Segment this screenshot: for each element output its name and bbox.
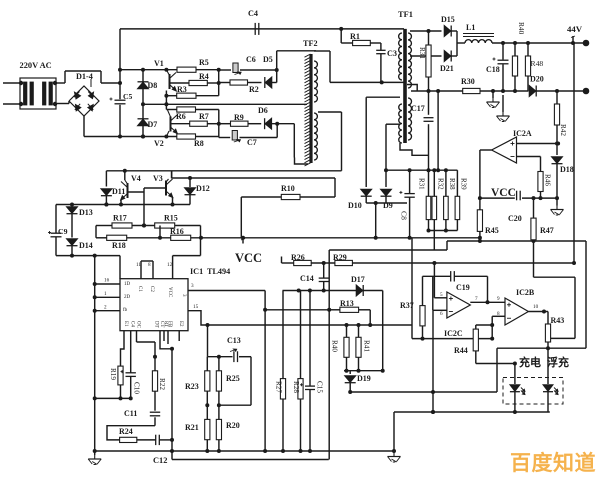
wire AC input lead top <box>3 82 20 84</box>
capacitor C18 <box>493 43 509 91</box>
wire IC2A plus in <box>517 142 561 146</box>
diode D9 <box>381 189 392 196</box>
label R39 rotated <box>460 178 468 190</box>
resistor R40 <box>344 325 349 357</box>
label C11 <box>124 409 137 418</box>
svg-text:R46: R46 <box>544 174 552 186</box>
svg-text:V3: V3 <box>153 174 163 183</box>
capacitor C14 <box>319 263 329 293</box>
svg-text:C2: C2 <box>149 286 154 292</box>
wire pin to R19 <box>121 331 125 366</box>
wire base rail y69.7 <box>120 68 221 72</box>
bridge rectifier D1-4 <box>69 79 99 116</box>
resistor R39 <box>455 170 460 219</box>
resistor R1 <box>353 40 371 45</box>
wire R17R15 run <box>96 224 201 238</box>
label C4 <box>248 9 258 18</box>
wire C19 loop <box>423 276 490 304</box>
wire D19 bottom <box>348 383 352 394</box>
wire y325 run <box>206 323 413 327</box>
svg-text:R8: R8 <box>194 139 204 148</box>
IC1 pin feedback wire <box>188 311 208 325</box>
wire rail y178 <box>172 172 335 181</box>
wire D20 to terminal <box>536 90 586 92</box>
wire VCC rail y237.8 <box>96 236 482 240</box>
svg-text:C1: C1 <box>137 286 142 292</box>
transformer TF1 primary upper <box>399 33 402 80</box>
wire V4 base <box>128 191 145 193</box>
svg-text:R6: R6 <box>176 112 186 121</box>
capacitor C19 <box>451 271 455 281</box>
resistor R24 <box>120 437 137 442</box>
svg-text:C13: C13 <box>227 336 241 345</box>
resistor R16 <box>171 235 191 240</box>
svg-text:C12: C12 <box>153 456 167 465</box>
label C5 <box>123 92 132 101</box>
IC1 pin3 wire <box>188 291 331 452</box>
label R31 rotated <box>418 47 426 59</box>
svg-text:D21: D21 <box>440 64 454 73</box>
wire V2 collector <box>168 110 171 117</box>
wire D5 up to TF2 <box>272 51 316 83</box>
resistor R45 <box>477 198 482 241</box>
wire R3 run <box>166 95 218 97</box>
wire float feed <box>551 277 575 338</box>
label R43 <box>551 316 565 325</box>
resistor R5 <box>177 67 196 72</box>
svg-text:R48: R48 <box>531 59 544 68</box>
wire V1 base to R4 <box>170 82 190 84</box>
svg-text:E1: E1 <box>123 321 128 327</box>
label R38 rotated <box>448 178 456 190</box>
transistor V3 <box>166 172 173 205</box>
label R30 <box>461 77 475 86</box>
svg-text:12: 12 <box>167 262 173 268</box>
wire feed y255.6 <box>56 254 120 258</box>
resistor R20 <box>216 405 221 453</box>
svg-text:2D: 2D <box>124 295 131 300</box>
label R25 <box>226 374 240 383</box>
capacitor C20 <box>517 191 521 201</box>
op-amp IC2C <box>447 292 470 318</box>
label D1-4 <box>76 72 93 81</box>
transformer TF2 core <box>309 54 312 163</box>
svg-text:TL494: TL494 <box>207 267 230 276</box>
svg-text:R19: R19 <box>109 368 117 380</box>
label R23 <box>185 382 199 391</box>
wire TF2 bottom box <box>295 158 309 165</box>
resistor R19 <box>118 366 123 400</box>
label C18 <box>486 65 500 74</box>
wire pin drop x172 <box>160 331 174 453</box>
svg-text:C17: C17 <box>411 104 425 113</box>
svg-text:百度知道: 百度知道 <box>510 451 596 475</box>
svg-text:VCC: VCC <box>491 187 516 199</box>
label C17 <box>411 104 425 113</box>
resistor R42 <box>554 91 559 140</box>
wire top rail y29 <box>120 27 404 31</box>
wire R32 drop <box>329 220 447 250</box>
wire R1 drop <box>341 29 352 43</box>
svg-text:DT: DT <box>154 321 159 328</box>
label IC2B <box>516 288 535 297</box>
label V4 <box>131 174 141 183</box>
wire bridge- down <box>83 116 85 137</box>
op-amp IC2A <box>492 137 517 163</box>
resistor R21 <box>205 405 210 453</box>
wire R7 right <box>207 122 221 126</box>
svg-text:R7: R7 <box>199 112 209 121</box>
svg-text:C14: C14 <box>300 274 314 283</box>
diode D12 <box>185 188 196 195</box>
wire T to bridge top <box>56 71 101 83</box>
wire IC2C minus in <box>433 309 447 311</box>
svg-text:R37: R37 <box>400 301 414 310</box>
svg-text:D15: D15 <box>441 15 455 24</box>
svg-text:7: 7 <box>475 296 478 302</box>
wire D12 column <box>189 178 191 187</box>
LED charge <box>510 364 525 415</box>
diode D19 <box>345 376 356 383</box>
label R17 <box>113 214 127 223</box>
wire D19 stub <box>349 371 351 374</box>
capacitor C11 <box>150 391 160 426</box>
wire R2 run y82.5 <box>219 82 262 84</box>
label 44V <box>567 24 583 34</box>
diode D13 <box>67 207 78 214</box>
wire D11 column <box>105 171 107 187</box>
ground mid <box>388 453 401 463</box>
wire pin drop to C13 line <box>207 325 209 357</box>
wire R45R47 y241 <box>447 239 586 243</box>
wire D15 out <box>452 31 458 56</box>
wire C6 run y70 <box>219 68 279 72</box>
wire D14 bottom <box>70 246 74 258</box>
capacitor C17 <box>424 118 434 122</box>
label R29 <box>333 253 347 262</box>
wire R9 run <box>219 123 261 125</box>
label R26 <box>291 253 305 262</box>
svg-text:D8: D8 <box>148 81 158 90</box>
label C8 <box>400 211 409 220</box>
IC1 TL494 box <box>120 279 188 331</box>
wire D13 column <box>71 205 73 206</box>
svg-text:R23: R23 <box>185 382 199 391</box>
wire y392 run <box>350 348 497 394</box>
wire TF1 tap to D15 <box>410 30 442 32</box>
ground below D18 <box>551 198 564 215</box>
wire R4 to vert <box>207 81 220 85</box>
wire TF1 sec lower tap <box>407 85 417 92</box>
label C19 <box>456 283 470 292</box>
label R16 <box>170 227 184 236</box>
svg-text:2: 2 <box>104 305 107 311</box>
resistor R44 <box>473 323 494 351</box>
svg-text:C4: C4 <box>248 9 258 18</box>
wire L1 in <box>457 42 465 44</box>
wire D13-D14 <box>71 214 73 238</box>
label R24 <box>119 427 133 436</box>
wire R10 run <box>241 178 335 197</box>
label C20 <box>508 214 522 223</box>
wire secondary bus y170.2 <box>384 168 457 172</box>
label R9 <box>234 113 244 122</box>
tiny pin numbers comparators <box>440 292 539 317</box>
wire D10 column <box>365 97 367 187</box>
capacitor C12 <box>156 435 160 445</box>
terminal 44V+ <box>571 36 589 46</box>
svg-text:R43: R43 <box>551 316 565 325</box>
resistor R25 <box>216 357 221 408</box>
label R18 <box>112 241 126 250</box>
wire 44V drop x574 <box>572 43 576 265</box>
wire D17 drop x382.7 <box>382 291 384 371</box>
label D9 <box>383 201 393 210</box>
wire x533 link <box>534 241 576 277</box>
transformer TF1 core <box>403 29 407 143</box>
svg-text:R17: R17 <box>113 214 127 223</box>
svg-text:R27: R27 <box>275 381 283 393</box>
transformer TF1 secondary upper <box>408 33 411 88</box>
svg-text:IC2C: IC2C <box>444 329 463 338</box>
svg-text:44V: 44V <box>567 24 583 34</box>
svg-text:R41: R41 <box>363 340 371 352</box>
svg-text:R38: R38 <box>448 178 456 190</box>
label R10 <box>281 184 295 193</box>
label R13 <box>340 299 354 308</box>
label D14 <box>79 241 93 250</box>
svg-text:D18: D18 <box>560 165 574 174</box>
label V3 <box>153 174 163 183</box>
label TF1 <box>398 10 413 19</box>
capacitor C3 <box>376 50 385 53</box>
wire C13 line <box>208 355 252 359</box>
label V1 <box>154 59 164 68</box>
svg-text:V4: V4 <box>131 174 141 183</box>
IC1 left bus <box>93 256 97 453</box>
wire D9 column <box>386 124 400 187</box>
resistor R41 <box>356 325 361 357</box>
svg-text:C6: C6 <box>246 55 256 64</box>
label R44 <box>454 346 468 355</box>
LED float <box>543 385 558 412</box>
diode D21 <box>444 51 451 62</box>
label R19 rotated <box>109 368 117 380</box>
label L1 <box>466 23 475 32</box>
label C13 <box>227 336 241 345</box>
wire R8 run y136.5 <box>84 135 219 139</box>
label D20 <box>530 75 544 84</box>
svg-text:R30: R30 <box>461 77 475 86</box>
svg-text:R1: R1 <box>350 32 360 41</box>
wire charge feed right <box>497 241 586 348</box>
svg-text:C9: C9 <box>58 227 68 236</box>
label R15 <box>164 214 178 223</box>
wire rail y204.5 <box>56 203 190 207</box>
svg-text:16: 16 <box>104 278 110 284</box>
svg-text:1D: 1D <box>124 282 131 287</box>
resistor R37 <box>420 276 425 338</box>
transformer TF2 secondary lower <box>314 113 317 160</box>
diode D11 <box>101 189 112 196</box>
resistor R46 <box>538 172 543 201</box>
transistor V4 <box>121 171 128 205</box>
svg-text:D20: D20 <box>530 75 544 84</box>
IC1 left pin wires <box>93 282 120 313</box>
svg-text:C3: C3 <box>387 49 397 58</box>
label C14 <box>300 274 314 283</box>
resistor R4 <box>189 80 207 85</box>
svg-text:D11: D11 <box>112 187 125 196</box>
wire IC2C out <box>470 301 505 303</box>
resistor R23 <box>205 357 210 408</box>
wire C17 column <box>428 91 430 170</box>
wire R26R29 y263 <box>282 257 575 266</box>
wire TF1 parallel vert <box>436 89 440 172</box>
wire IC2C plus in <box>434 263 447 298</box>
label C12 <box>153 456 167 465</box>
label IC2C <box>444 329 463 338</box>
svg-text:R31: R31 <box>418 47 426 59</box>
label D5 <box>263 55 273 64</box>
label VCC right <box>491 187 516 199</box>
label D10 <box>348 201 362 210</box>
capacitor C8 <box>399 170 414 240</box>
resistor R6 <box>177 107 196 112</box>
label C15 rotated <box>316 381 324 393</box>
svg-text:D6: D6 <box>258 106 268 115</box>
label C9 <box>58 227 68 236</box>
wire x96 corner <box>95 226 97 238</box>
label D7 <box>148 120 158 129</box>
label R37 <box>400 301 414 310</box>
resistor R30 <box>463 88 480 93</box>
wire aux drop x375.7 <box>374 203 378 240</box>
VCC tap tick <box>241 238 245 244</box>
wire TF1 tap to D21 <box>410 55 442 57</box>
svg-text:C11: C11 <box>124 409 137 418</box>
svg-text:R2: R2 <box>249 85 259 94</box>
wire D12 bottom <box>189 195 191 205</box>
wire TF2 link y82.4 <box>330 80 404 84</box>
wire C7 run <box>219 124 277 138</box>
svg-text:5: 5 <box>440 292 443 298</box>
wire x160 link <box>158 226 162 240</box>
resistor R8 <box>177 134 196 139</box>
label C7 <box>247 138 257 147</box>
svg-text:L1: L1 <box>466 23 475 32</box>
svg-text:fb: fb <box>123 308 128 313</box>
label R4 <box>199 72 209 81</box>
diode D10 <box>361 189 372 196</box>
capacitor C6 trimmer <box>233 63 241 75</box>
label R48 <box>531 59 544 68</box>
wire feed to IC corner <box>119 256 121 279</box>
wire pin to R22 <box>137 342 158 371</box>
label C3 <box>387 49 397 58</box>
resistor R27 <box>280 291 285 452</box>
capacitor C10 <box>121 331 136 401</box>
svg-text:TF1: TF1 <box>398 10 413 19</box>
svg-text:R15: R15 <box>164 214 178 223</box>
label D18 <box>560 165 574 174</box>
svg-text:1: 1 <box>104 291 107 297</box>
wire 44V rail <box>492 41 586 45</box>
svg-text:D12: D12 <box>196 184 210 193</box>
label TF2 <box>303 39 318 48</box>
wire long vert x329 <box>328 250 330 460</box>
svg-text:11: 11 <box>136 262 141 268</box>
label R27 rotated <box>275 381 283 393</box>
transistor V2 <box>166 115 177 137</box>
resistor R10 <box>281 194 300 199</box>
wire D11 bottom <box>104 196 108 207</box>
resistor R22 <box>152 371 157 391</box>
wire R24 to C12 <box>137 439 156 441</box>
capacitor C15 <box>300 291 315 452</box>
wire rail y170.8 <box>106 169 341 173</box>
label R45 <box>485 226 499 235</box>
svg-text:R42: R42 <box>559 124 567 136</box>
svg-text:D7: D7 <box>148 120 158 129</box>
wire V3 base <box>144 188 166 192</box>
svg-text:8: 8 <box>148 262 151 268</box>
label R5 <box>199 58 209 67</box>
label 220V AC <box>20 61 52 70</box>
diode D18 <box>552 144 563 201</box>
svg-text:R24: R24 <box>119 427 133 436</box>
wire D6 node <box>272 122 295 126</box>
svg-text:V1: V1 <box>154 59 164 68</box>
wire V2 base to R7 <box>171 123 190 125</box>
wire TF2 lower right box <box>318 112 342 171</box>
svg-text:3: 3 <box>191 283 194 289</box>
wire R42 to node <box>555 140 559 146</box>
label D11 <box>112 187 125 196</box>
label R2 <box>249 85 259 94</box>
wire R44 bottom <box>476 351 517 366</box>
label R22 rotated <box>158 378 166 390</box>
svg-text:浮充: 浮充 <box>547 355 569 369</box>
diode D20 <box>529 86 536 97</box>
ground lower rail <box>172 451 329 460</box>
wire D7 column <box>141 104 145 138</box>
label R8 <box>194 139 204 148</box>
wire D17 line <box>283 289 383 293</box>
resistor R7 <box>190 121 208 126</box>
resistor R48 <box>525 43 530 91</box>
svg-text:D10: D10 <box>348 201 362 210</box>
wire TF2 sec top lead <box>314 51 330 82</box>
svg-text:R18: R18 <box>112 241 126 250</box>
label C6 <box>246 55 256 64</box>
label R41 rotated <box>363 340 371 352</box>
inductor L1 <box>463 34 494 44</box>
wire TF1 bottom step <box>400 143 429 155</box>
label D6 <box>258 106 268 115</box>
svg-text:R16: R16 <box>170 227 184 236</box>
svg-text:R9: R9 <box>234 113 244 122</box>
transformer TF1 secondary lower <box>408 98 412 140</box>
svg-text:6: 6 <box>440 311 443 317</box>
svg-text:R21: R21 <box>185 423 199 432</box>
svg-text:220V AC: 220V AC <box>20 61 52 70</box>
wire D8 column <box>141 68 145 107</box>
svg-text:10: 10 <box>533 304 539 310</box>
svg-text:C20: C20 <box>508 214 522 223</box>
svg-text:C10: C10 <box>133 382 141 394</box>
wire T to bridge bottom <box>56 101 69 104</box>
